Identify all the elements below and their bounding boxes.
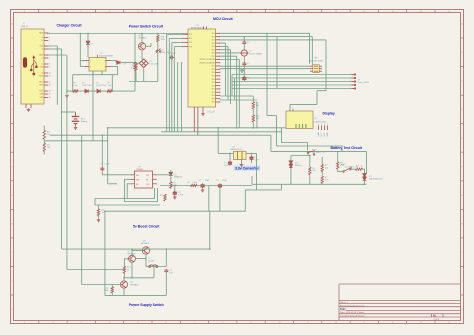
- svg-text:8: 8: [49, 64, 50, 66]
- svg-text:1.5k: 1.5k: [73, 85, 77, 87]
- wire bus bundle drop c: [280, 128, 282, 143]
- svg-text:3: 3: [105, 67, 106, 69]
- wire y211 bus: [105, 210, 245, 212]
- IC U5 AMS1117 body: [234, 151, 247, 159]
- svg-text:Conn_01x05: Conn_01x05: [358, 82, 370, 84]
- wire display feed h: [290, 103, 317, 105]
- IC U2 right pin 7: [216, 52, 221, 54]
- wire divider tap: [44, 140, 107, 142]
- svg-text:5: 5: [219, 46, 220, 48]
- wire junction: [87, 33, 89, 35]
- switch SW1 battery test: [307, 151, 315, 156]
- wire y190 link: [245, 189, 281, 191]
- svg-text:SHL4: SHL4: [39, 91, 43, 93]
- wire Q1 to S1: [141, 50, 143, 60]
- wire rail B to boost: [67, 269, 125, 271]
- wire S2 down rail: [157, 52, 159, 81]
- svg-text:PD4: PD4: [212, 98, 215, 100]
- IC U6 left pin 3: [130, 183, 134, 185]
- diode D7 charge: [117, 61, 120, 65]
- IC U2 right pin 4: [216, 42, 221, 44]
- svg-text:PD5: PD5: [212, 76, 215, 78]
- wire rail to MCU c: [171, 43, 173, 132]
- IC U3 inner marks: [314, 66, 318, 71]
- wire D7 out: [121, 62, 135, 64]
- wire rail long f: [180, 62, 182, 132]
- crystal Y1 symbol: [240, 50, 249, 56]
- connector J1 pin 1: [44, 32, 48, 34]
- svg-text:16: 16: [49, 97, 51, 99]
- wire low rail: [129, 81, 158, 83]
- wire J2 net 3: [232, 81, 351, 83]
- wire C9 bottom: [251, 161, 253, 163]
- svg-text:2: 2: [49, 37, 50, 39]
- svg-text:13: 13: [49, 85, 51, 87]
- resistor R19 300k: [164, 194, 166, 201]
- wire rail x107 to U6: [108, 183, 117, 185]
- IC U2 right pin 17: [216, 85, 221, 87]
- wire U1 left rail: [80, 34, 84, 61]
- svg-text:2: 2: [219, 36, 220, 38]
- IC U2 right pin 22: [216, 101, 221, 103]
- wire row left post: [72, 75, 74, 91]
- connector J1 pin 14: [44, 90, 48, 92]
- svg-text:10: 10: [219, 62, 221, 64]
- svg-text:SHL2: SHL2: [39, 82, 43, 84]
- connector J1 pin 11: [44, 75, 48, 77]
- wire boost top bus: [62, 248, 210, 250]
- wire VBUS vertical: [47, 32, 49, 35]
- IC U2 top pin b: [206, 27, 208, 30]
- svg-text:Date: 2024-05-28 1 Shee: Date: 2024-05-28 1 Sheet: [340, 311, 364, 314]
- IC U4 OLED display body: [286, 111, 313, 129]
- wire MCU top bus 1: [220, 32, 310, 34]
- title block outline: [339, 284, 461, 321]
- wire D4 top: [290, 156, 292, 161]
- svg-text:OUT: OUT: [146, 184, 150, 186]
- wire main bus yC: [50, 134, 271, 136]
- wire charger row top rail: [73, 74, 118, 76]
- wire reg in: [218, 153, 233, 155]
- wire rail r4 v: [236, 56, 238, 128]
- connector J1 pin 9: [44, 66, 48, 68]
- wire rail B down: [66, 55, 68, 104]
- wire R21 bottom: [98, 216, 100, 219]
- diode D6 boost: [169, 172, 173, 175]
- wire charger mid rail: [92, 71, 94, 141]
- svg-text:3.3v Converter: 3.3v Converter: [235, 167, 260, 171]
- wire rail A down: [61, 49, 63, 112]
- wire D6 top: [170, 170, 172, 172]
- wire R10-R11: [321, 172, 323, 177]
- wire R14 top feed: [252, 96, 254, 102]
- IC U2 right pin 2: [216, 36, 221, 38]
- connector J1 pin 4: [44, 45, 48, 47]
- wire junction: [131, 248, 133, 250]
- IC U1 top pin: [97, 55, 99, 58]
- wire junction: [253, 127, 255, 129]
- wire rail A lower: [61, 112, 63, 249]
- wire junction: [157, 33, 159, 35]
- wire R21 top: [98, 205, 100, 209]
- IC U6 right pin 5: [153, 178, 157, 180]
- svg-text:17: 17: [219, 85, 221, 87]
- connector J2 pin 2: [351, 77, 355, 79]
- wire R16 to S2: [157, 42, 158, 51]
- wire IC U1 bottom drop a: [92, 71, 94, 75]
- svg-text:13: 13: [219, 72, 221, 74]
- svg-text:4: 4: [327, 124, 328, 126]
- svg-text:4.7uF: 4.7uF: [178, 194, 184, 196]
- svg-text:PD1: PD1: [212, 36, 215, 38]
- svg-text:SCL: SCL: [324, 133, 326, 137]
- wire U6 sw to D6: [157, 174, 171, 176]
- svg-text:9: 9: [219, 59, 220, 61]
- svg-text:18: 18: [219, 89, 221, 91]
- wire rail r3 v: [230, 50, 232, 104]
- svg-text:AMS1117-3.3: AMS1117-3.3: [231, 148, 244, 151]
- wire SW1 drop: [307, 154, 309, 156]
- wire x105 riser: [104, 211, 106, 295]
- resistor R9 220: [309, 167, 311, 174]
- wire C11 top: [174, 186, 176, 191]
- IC U4 top pin ticks: [290, 109, 293, 111]
- switch SW2 battery test: [343, 168, 352, 173]
- svg-text:J: J: [462, 281, 463, 283]
- IC U6 inner pin names: [136, 175, 150, 186]
- resistor R15 bottom: [252, 115, 254, 122]
- wire junction: [364, 184, 366, 186]
- wire Q4 base feed: [82, 284, 121, 286]
- wire D6 to R18: [170, 176, 172, 182]
- wire junction: [141, 33, 143, 35]
- IC U2 left pin 4: [184, 46, 189, 48]
- connector J2 pin 5: [351, 88, 355, 90]
- svg-text:PD1: PD1: [212, 89, 215, 91]
- svg-text:D?: D?: [124, 63, 126, 65]
- svg-text:(PCINT1_/OC1B)PB2: (PCINT1_/OC1B)PB2: [199, 59, 215, 61]
- capacitor C4 switch: [169, 55, 174, 59]
- resistor R14 top: [252, 102, 254, 109]
- IC U2 bottom drop b: [197, 107, 199, 135]
- svg-text:3: 3: [219, 40, 220, 42]
- wire x209 riser: [209, 211, 211, 248]
- ground crystal (green): [240, 69, 244, 73]
- wire divider mid: [43, 139, 45, 143]
- svg-text:12: 12: [49, 82, 51, 84]
- IC U2 right pin 6: [216, 49, 221, 51]
- IC U2 right pin 20: [216, 94, 221, 96]
- wire rail to MCU c head: [172, 42, 184, 44]
- capacitor C7 crystal: [242, 62, 246, 66]
- resistor R5 led: [73, 90, 78, 92]
- IC U3 logic body: [313, 65, 319, 73]
- wire mcu pin to j2 a: [220, 95, 253, 97]
- wire D7 lift: [115, 61, 117, 63]
- svg-text:1: 1: [219, 33, 220, 35]
- IC U1 pin 3: [106, 66, 111, 68]
- wire R13 to D5: [363, 169, 365, 173]
- wire nest drop x277: [276, 37, 278, 89]
- svg-text:MCU Circuit: MCU Circuit: [213, 17, 234, 21]
- wire row right post: [111, 75, 113, 91]
- wire MCU top bus 3: [220, 39, 326, 41]
- connector J1 pin 3: [44, 40, 48, 42]
- wire diode D1 feed: [87, 34, 89, 42]
- IC U6 right pin 4: [153, 174, 157, 176]
- svg-text:19: 19: [219, 92, 221, 94]
- diode D2 red LED: [85, 89, 88, 93]
- wire SW2 to R12: [338, 171, 344, 173]
- IC U6 boost body: [135, 171, 153, 188]
- wire rail r2: [220, 45, 228, 47]
- capacitor C6 crystal: [242, 41, 246, 45]
- svg-text:PD2: PD2: [212, 40, 215, 42]
- wire Q1 top to bus: [141, 34, 143, 43]
- wire junction: [251, 153, 253, 155]
- svg-text:PD3: PD3: [212, 69, 215, 71]
- svg-text:PD3: PD3: [212, 95, 215, 97]
- wire R17 top: [135, 62, 137, 64]
- wire C10 top: [101, 135, 103, 167]
- svg-text:1: 1: [318, 124, 319, 126]
- wire junction: [170, 174, 172, 176]
- svg-text:10k: 10k: [47, 134, 50, 136]
- wire U1 left pin2: [80, 66, 84, 68]
- wire R16 top to bus: [157, 34, 159, 36]
- IC U2 right pin 19: [216, 91, 221, 93]
- wire J2 net 2: [232, 77, 351, 79]
- ground battery: [74, 126, 78, 129]
- wire junction: [145, 248, 147, 250]
- wire MCU top bus 2: [220, 36, 312, 38]
- wire junction: [66, 90, 68, 92]
- wire rail r3: [220, 49, 231, 51]
- resistor R21 100: [97, 209, 99, 216]
- wire junction: [321, 171, 323, 173]
- resistor R8 divider: [43, 143, 45, 152]
- wire bus2 drop: [311, 37, 313, 65]
- svg-text:10k: 10k: [256, 105, 259, 107]
- wire IC U1 bottom drop b: [101, 71, 103, 75]
- IC U3 right pin 4: [319, 65, 322, 67]
- wire R23 bottom: [111, 293, 113, 296]
- svg-text:1k: 1k: [127, 270, 129, 272]
- svg-text:PD4: PD4: [212, 72, 215, 74]
- svg-text:14: 14: [49, 91, 51, 93]
- svg-text:SMBD12: SMBD12: [174, 177, 183, 179]
- wire D4 feed: [291, 155, 310, 157]
- IC U1 charger TP4056 body: [89, 58, 106, 72]
- connector J1 pin 13: [44, 84, 48, 86]
- svg-text:File: homemadeCircuit.sch: File: homemadeCircuit.sch: [340, 304, 365, 307]
- wire nest y115 link: [267, 115, 276, 117]
- IC U2 right pin 16: [216, 81, 221, 83]
- wire J2 net 4: [232, 84, 351, 86]
- svg-text:GND: GND: [318, 132, 320, 137]
- wire U6 feedback loop inner: [127, 184, 154, 199]
- IC U2 left pin 2: [184, 37, 189, 39]
- IC U2 bottom drop a: [193, 107, 195, 132]
- wire junction: [217, 127, 219, 129]
- IC U3 left pin 3: [310, 70, 313, 72]
- svg-text:VCC: VCC: [321, 132, 323, 137]
- USB symbol bar: [23, 58, 27, 68]
- connector J1 pin 6: [44, 54, 48, 56]
- wire rail r2 v: [227, 46, 229, 100]
- wire charger diode row: [67, 90, 135, 92]
- IC U2 left pin 3: [184, 42, 189, 44]
- svg-text:2: 2: [182, 38, 183, 40]
- wire R18 bottom bus: [160, 185, 252, 187]
- svg-text:PD5: PD5: [212, 49, 215, 51]
- svg-text:10uF: 10uF: [222, 180, 227, 182]
- display net labels: [318, 132, 329, 137]
- svg-text:D+: D+: [41, 64, 43, 66]
- wire J2 rail drop a: [231, 75, 233, 97]
- wire row right rail: [134, 69, 136, 91]
- wire rail x81 down: [81, 135, 83, 284]
- wire bus bundle drop b: [275, 132, 277, 146]
- wire junction: [236, 127, 238, 129]
- svg-text:PC1: PC1: [189, 38, 192, 40]
- IC U2 right pin 9: [216, 59, 221, 61]
- diode D4 indicator: [289, 161, 293, 164]
- wire rail r1 v: [225, 43, 227, 96]
- svg-text:PD2: PD2: [212, 92, 215, 94]
- wire junction: [219, 185, 221, 187]
- wire display top feed: [289, 104, 291, 111]
- IC U2 right pin 18: [216, 88, 221, 90]
- wire J2 net 1: [232, 74, 351, 76]
- IC U2 right pin 10: [216, 62, 221, 64]
- ground C12: [201, 189, 205, 192]
- wire D4 bottom: [290, 168, 292, 184]
- resistor R12 10k: [337, 162, 339, 169]
- ground R21: [97, 219, 101, 222]
- IC U2 right pin 15: [216, 78, 221, 80]
- capacitor C9 reg out: [249, 156, 253, 161]
- svg-text:SN74LVC1G86: SN74LVC1G86: [309, 61, 324, 63]
- resistor R16 pullup: [157, 35, 159, 42]
- wire bus yB: [161, 131, 281, 133]
- connector J1 pin 8: [44, 63, 48, 65]
- wire junction: [102, 134, 104, 136]
- wire junction: [134, 33, 136, 35]
- svg-text:No.: No.: [433, 315, 437, 317]
- connector J1 pin 16: [44, 97, 48, 99]
- resistor R13 1k: [356, 168, 363, 170]
- connector J1 pin 7: [44, 57, 48, 59]
- capacitor C14 1uF: [164, 269, 168, 273]
- svg-text:PC2: PC2: [189, 42, 192, 44]
- IC U3 right pin 5: [319, 68, 322, 70]
- wire R15 bottom: [252, 122, 254, 128]
- wire x245 drop: [244, 190, 246, 211]
- svg-text:Power Supply Switch: Power Supply Switch: [129, 303, 164, 307]
- connector J2 pin 4: [351, 84, 355, 86]
- wire display feed riser: [316, 91, 318, 105]
- svg-text:Sw_SPDT_v2: Sw_SPDT_v2: [312, 152, 325, 154]
- wire junction: [47, 33, 49, 35]
- svg-text:MPSA06: MPSA06: [141, 242, 150, 245]
- battery BT1 symbol: [72, 113, 79, 126]
- wire C10 bottom to U6: [102, 171, 130, 175]
- wire R12 bottom: [337, 169, 339, 172]
- svg-text:14: 14: [219, 76, 221, 78]
- wire USB pin rail B head: [48, 54, 67, 56]
- resistor R23 10k: [111, 287, 113, 293]
- svg-text:220k: 220k: [193, 182, 197, 184]
- wire battest top rail: [271, 150, 367, 152]
- wire R3 top to bus: [134, 34, 136, 63]
- wire L1 row: [146, 266, 166, 268]
- IC U2 MCU ATMEGA328 body: [188, 29, 216, 107]
- svg-text:USB_B: USB_B: [21, 26, 28, 28]
- wire junction: [61, 111, 63, 113]
- svg-text:2: 2: [90, 67, 91, 69]
- wire junction: [80, 33, 82, 35]
- svg-text:22: 22: [219, 102, 221, 104]
- connector J1 pin 10: [44, 72, 48, 74]
- svg-text:Battery: Battery: [81, 120, 87, 123]
- svg-text:MPSA56: MPSA56: [139, 37, 148, 40]
- svg-text:PD0: PD0: [212, 33, 215, 35]
- wire crystal cap lower: [243, 66, 245, 70]
- ground MCU bottom: [201, 113, 205, 116]
- wire top bus charger: [48, 33, 189, 35]
- wire rail to MCU a head: [167, 33, 184, 35]
- wire y278 rail: [124, 277, 154, 279]
- svg-text:3: 3: [182, 42, 183, 44]
- IC U2 right pin 12: [216, 68, 221, 70]
- svg-text:4.7k: 4.7k: [325, 179, 329, 181]
- svg-text:2: 2: [321, 124, 322, 126]
- svg-text:J: J: [12, 281, 13, 283]
- wire junction: [202, 185, 204, 187]
- svg-text:MPSA06: MPSA06: [131, 284, 140, 287]
- diode D1 body: [86, 41, 90, 44]
- wire battery feed: [62, 111, 76, 113]
- wire junction: [72, 90, 74, 92]
- IC U3 left pin 2: [310, 68, 313, 70]
- wire x209 upper link: [208, 186, 210, 212]
- wire rail r5 v: [238, 60, 240, 128]
- capacitor C10 body: [100, 167, 104, 171]
- wire R4 drop: [117, 67, 119, 71]
- wire Q3 base: [124, 259, 128, 267]
- wire y295 rail: [105, 294, 166, 296]
- svg-text:10k: 10k: [256, 118, 259, 120]
- svg-text:VBUS: VBUS: [39, 33, 43, 35]
- svg-text:1.5k: 1.5k: [108, 85, 112, 87]
- wire Q3 emitter: [131, 262, 133, 278]
- svg-text:4: 4: [219, 43, 220, 45]
- connector J2 pin 3: [351, 81, 355, 83]
- diode D4 indicator lower: [289, 164, 293, 167]
- IC U2 right pin 21: [216, 98, 221, 100]
- connector J1 bottom pin a: [25, 104, 27, 108]
- wire Q4 collector: [123, 278, 125, 281]
- IC U2 left pin 1: [184, 33, 189, 35]
- connector J1 pin 12: [44, 81, 48, 83]
- wire U3 net a: [220, 65, 310, 67]
- wire C8 top: [229, 154, 231, 161]
- IC U2 right pin 3: [216, 39, 221, 41]
- wire R9 to gnd: [309, 175, 311, 185]
- wire U1 pin3 right: [111, 66, 118, 68]
- transistor Q4 boost: [120, 281, 127, 288]
